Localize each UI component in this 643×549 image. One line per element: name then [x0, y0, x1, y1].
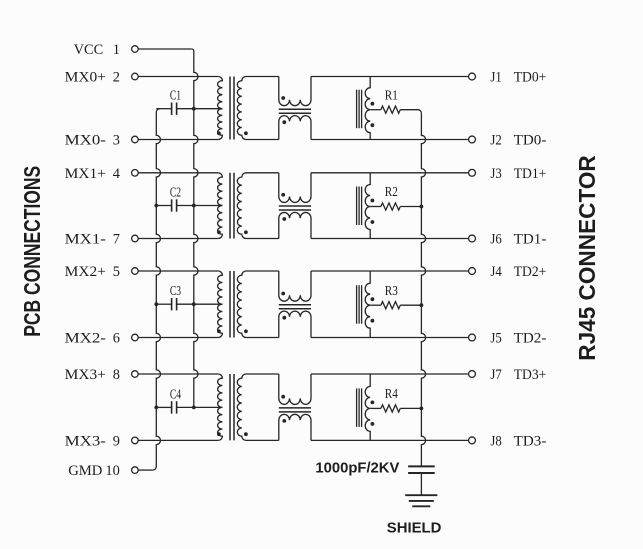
wire MX2+ to transformer T3 primary top [138, 270, 218, 272]
wire R2 to termination bus [400, 206, 421, 208]
capacitor 1000pF/2KV plates [408, 465, 435, 467]
svg-text:MX1-: MX1- [65, 232, 106, 248]
junction dot ground bus / C4 [154, 406, 158, 410]
svg-text:J8: J8 [490, 433, 501, 449]
wire choke to J6 [311, 238, 468, 240]
wire MX0- to transformer T1 primary bottom [138, 139, 218, 141]
junction dot VCC bus / C4 row [192, 406, 196, 410]
svg-text:J5: J5 [490, 331, 501, 347]
transformer T3 secondary winding [237, 271, 246, 338]
junction dot ground bus / C3 [154, 302, 158, 306]
junction dot ground bus / C2 [154, 204, 158, 208]
VCC bus corner [192, 49, 194, 51]
wire choke to J5 [311, 337, 468, 339]
svg-text:TD2-: TD2- [514, 331, 547, 347]
svg-text:TD0-: TD0- [514, 133, 547, 149]
wire C1 to T1 center tap [177, 108, 223, 110]
terminal J2 [469, 136, 476, 143]
junction dot VCC bus / C3 row [192, 302, 196, 306]
transformer T1 secondary dot [244, 131, 248, 135]
svg-text:R1: R1 [385, 88, 398, 103]
wire choke to J1 [311, 76, 468, 78]
termination choke 4 core [356, 388, 358, 427]
svg-text:TD3-: TD3- [514, 433, 547, 449]
termination choke 2 winding [365, 173, 370, 239]
resistor R3 [381, 302, 400, 309]
transformer T3 core [229, 271, 231, 338]
terminal pin 3 (MX0-) [132, 136, 139, 143]
wire T2 secondary top to choke [246, 172, 279, 174]
svg-text:C2: C2 [170, 185, 181, 200]
termination choke 3 winding [365, 271, 370, 338]
termination choke 4 lower dot [371, 422, 375, 426]
wire MX2- to transformer T3 primary bottom [138, 337, 218, 339]
capacitor C3 [171, 298, 173, 310]
svg-text:RJ45 CONNECTOR: RJ45 CONNECTOR [574, 155, 600, 361]
svg-text:PCB CONNECTIONS: PCB CONNECTIONS [19, 166, 45, 337]
svg-text:J6: J6 [490, 232, 501, 248]
transformer T1 primary dot [217, 131, 221, 135]
wire T3 secondary top to choke [246, 270, 279, 272]
svg-text:MX3-: MX3- [65, 433, 106, 449]
wire MX0+ to transformer T1 primary top [138, 76, 218, 78]
svg-text:8: 8 [113, 367, 120, 383]
wire choke tap to R2 [370, 206, 381, 208]
wire MX1+ to transformer T2 primary top [138, 172, 218, 174]
terminal pin 6 (MX2-) [132, 334, 139, 341]
svg-text:2: 2 [113, 70, 120, 86]
junction dot VCC bus / C2 row [192, 204, 196, 208]
transformer T4 primary dot [217, 432, 221, 436]
choke L2 core [279, 205, 311, 207]
svg-text:10: 10 [105, 463, 119, 479]
svg-text:MX2+: MX2+ [65, 264, 106, 280]
wire T4 secondary bottom to choke [246, 439, 279, 441]
wire T3 secondary bottom to choke [246, 337, 279, 339]
svg-text:C1: C1 [170, 89, 181, 104]
termination choke 4 winding [365, 374, 370, 440]
terminal pin 2 (MX0+) [132, 73, 139, 80]
terminal J8 [469, 437, 476, 444]
choke L2 upper winding [279, 173, 311, 203]
transformer T4 secondary dot [244, 432, 248, 436]
wire ground bus to C2 [156, 205, 171, 207]
transformer T1 primary winding [218, 77, 223, 140]
wire choke to J3 [311, 172, 468, 174]
terminal J1 [469, 73, 476, 80]
svg-text:MX1+: MX1+ [65, 166, 106, 182]
ground bus (capacitor common) [153, 109, 161, 470]
wire choke to J8 [311, 439, 468, 441]
wire MX3+ to transformer T4 primary top [138, 373, 218, 375]
transformer T2 primary dot [217, 230, 221, 234]
terminal J6 [469, 235, 476, 242]
svg-text:MX2-: MX2- [65, 331, 106, 347]
terminal pin 8 (MX3+) [132, 371, 139, 378]
junction dot VCC bus / C1 row [192, 107, 196, 111]
wire R1 to termination bus [400, 110, 421, 114]
svg-text:R3: R3 [385, 284, 398, 299]
wire T4 secondary top to choke [246, 373, 279, 375]
wire VCC pin1 to VCC bus [138, 48, 192, 50]
svg-text:4: 4 [113, 166, 121, 182]
choke L1 lower dot [282, 120, 286, 124]
transformer T1 secondary winding [237, 77, 246, 140]
terminal pin 1 (VCC) [132, 46, 139, 53]
terminal pin 10 (GMD) [132, 467, 139, 474]
svg-text:TD1-: TD1- [514, 232, 547, 248]
svg-text:J2: J2 [490, 133, 501, 149]
svg-text:TD0+: TD0+ [514, 70, 547, 86]
capacitor C1 [171, 103, 173, 115]
svg-text:TD1+: TD1+ [514, 166, 547, 182]
terminal pin 5 (MX2+) [132, 268, 139, 275]
transformer T3 secondary dot [244, 329, 248, 333]
choke L2 upper dot [281, 193, 285, 197]
termination choke 1 lower dot [371, 123, 375, 127]
termination choke 2 upper dot [371, 199, 375, 203]
svg-text:6: 6 [113, 331, 121, 347]
termination bus (to shield capacitor) [421, 113, 425, 466]
svg-text:TD2+: TD2+ [514, 264, 547, 280]
terminal J3 [469, 169, 476, 176]
wire C3 to T3 center tap [177, 303, 223, 305]
svg-text:C3: C3 [170, 284, 181, 299]
termination choke 3 upper dot [371, 297, 375, 301]
transformer T2 core [229, 173, 231, 239]
svg-text:1000pF/2KV: 1000pF/2KV [315, 460, 399, 476]
wire ground bus to C3 [156, 303, 171, 305]
wire T1 secondary top to choke [246, 76, 279, 78]
svg-text:R4: R4 [385, 387, 398, 402]
svg-text:MX3+: MX3+ [65, 367, 106, 383]
choke L3 upper winding [279, 271, 311, 301]
termination choke 3 lower dot [371, 319, 375, 323]
capacitor C4 [171, 401, 173, 413]
junction dot R2 / termination bus [420, 205, 424, 209]
transformer T1 core [229, 77, 231, 140]
svg-text:VCC: VCC [74, 42, 104, 58]
svg-text:1: 1 [113, 42, 120, 58]
choke L3 lower dot [282, 316, 286, 320]
wire choke tap to R4 [370, 407, 381, 409]
terminal J7 [469, 371, 476, 378]
svg-text:9: 9 [113, 433, 120, 449]
svg-text:C4: C4 [170, 387, 181, 402]
termination choke 1 core [356, 90, 358, 129]
transformer T3 primary winding [218, 271, 223, 338]
wire choke to J7 [311, 373, 468, 375]
svg-text:5: 5 [113, 264, 120, 280]
choke L1 upper winding [279, 77, 311, 106]
wire R3 to termination bus [400, 304, 421, 306]
resistor R4 [381, 405, 400, 412]
choke L4 upper winding [279, 374, 311, 404]
junction dot R3 / termination bus [420, 303, 424, 307]
shield ground symbol [405, 494, 437, 496]
wire C4 to T4 center tap [177, 406, 223, 408]
svg-text:GMD: GMD [68, 463, 102, 479]
svg-text:J1: J1 [490, 70, 501, 86]
transformer T3 primary dot [217, 329, 221, 333]
junction dot R4 / termination bus [420, 407, 424, 411]
wire C2 to T2 center tap [177, 205, 223, 207]
termination choke 2 core [356, 187, 358, 226]
choke L3 core [279, 304, 311, 306]
choke L4 upper dot [281, 395, 285, 399]
transformer T2 secondary dot [244, 230, 248, 234]
resistor R2 [381, 203, 400, 210]
svg-text:3: 3 [113, 133, 120, 149]
svg-text:J7: J7 [490, 367, 501, 383]
terminal pin 4 (MX1+) [132, 170, 139, 177]
capacitor C2 [171, 199, 173, 211]
terminal J5 [469, 334, 476, 341]
termination choke 4 upper dot [371, 401, 375, 405]
choke L1 lower winding [279, 116, 311, 140]
terminal pin 7 (MX1-) [132, 235, 139, 242]
choke L1 core [279, 108, 311, 110]
wire MX3- to transformer T4 primary bottom [138, 439, 218, 441]
wire ground bus to C4 [156, 406, 171, 408]
svg-text:J4: J4 [490, 264, 501, 280]
transformer T4 core [229, 374, 231, 440]
resistor R1 [381, 106, 400, 113]
choke L2 lower dot [282, 217, 286, 221]
choke L4 lower dot [282, 419, 286, 423]
choke L3 upper dot [281, 292, 285, 296]
choke L4 lower winding [279, 414, 311, 440]
svg-text:TD3+: TD3+ [514, 367, 547, 383]
wire MX1- to transformer T2 primary bottom [138, 238, 218, 240]
svg-text:SHIELD: SHIELD [387, 519, 442, 536]
wire T2 secondary bottom to choke [246, 238, 279, 240]
transformer T2 primary winding [218, 173, 223, 239]
wire choke tap to R1 [370, 109, 381, 111]
svg-text:J3: J3 [490, 166, 501, 182]
terminal J4 [469, 268, 476, 275]
terminal pin 9 (MX3-) [132, 437, 139, 444]
wire choke tap to R3 [370, 304, 381, 306]
wire choke to J4 [311, 270, 468, 272]
svg-text:7: 7 [113, 232, 121, 248]
choke L1 upper dot [281, 96, 285, 100]
wire R4 to termination bus [400, 407, 421, 409]
transformer T2 secondary winding [237, 173, 246, 239]
svg-text:R2: R2 [385, 185, 398, 200]
termination choke 1 upper dot [371, 102, 375, 106]
VCC center-tap bus [194, 51, 198, 407]
transformer T4 secondary winding [237, 374, 246, 440]
termination choke 3 core [356, 285, 358, 324]
wire choke to J2 [311, 139, 468, 141]
wire capacitor to shield ground [420, 473, 422, 495]
choke L2 lower winding [279, 212, 311, 238]
wire ground bus to C1 [156, 108, 171, 110]
wire GMD pin10 to ground bus [138, 469, 153, 471]
transformer T4 primary winding [218, 374, 223, 440]
choke L3 lower winding [279, 311, 311, 337]
choke L4 core [279, 407, 311, 409]
svg-text:MX0-: MX0- [65, 133, 106, 149]
termination choke 2 lower dot [371, 220, 375, 224]
wire T1 secondary bottom to choke [246, 139, 279, 141]
svg-text:MX0+: MX0+ [65, 70, 106, 86]
termination choke 1 winding [365, 77, 370, 140]
